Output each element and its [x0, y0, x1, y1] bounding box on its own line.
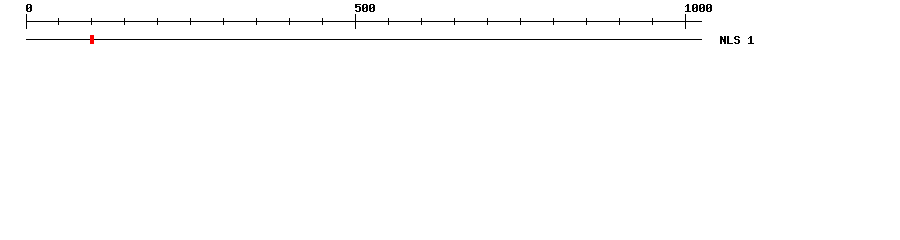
scale label "0" [26, 4, 32, 12]
minor tick 450 [322, 18, 323, 25]
minor tick 100 [91, 18, 92, 25]
minor tick 800 [553, 18, 554, 25]
major tick 500 [355, 14, 356, 29]
minor tick 850 [586, 18, 587, 25]
NLS motif marker (red) [90, 35, 94, 44]
minor tick 250 [190, 18, 191, 25]
minor tick 700 [487, 18, 488, 25]
major tick 1000 [685, 14, 686, 29]
minor tick 350 [256, 18, 257, 25]
scale label "1000" [685, 4, 712, 12]
minor tick 150 [124, 18, 125, 25]
minor tick 650 [454, 18, 455, 25]
minor tick 750 [520, 18, 521, 25]
scale label "500" [355, 4, 375, 12]
minor tick 950 [652, 18, 653, 25]
ruler axis line [26, 21, 702, 22]
minor tick 900 [619, 18, 620, 25]
minor tick 200 [157, 18, 158, 25]
minor tick 400 [289, 18, 290, 25]
minor tick 600 [421, 18, 422, 25]
major tick 0 [26, 14, 27, 29]
minor tick 550 [388, 18, 389, 25]
minor tick 50 [58, 18, 59, 25]
minor tick 300 [223, 18, 224, 25]
feature label "NLS 1" [720, 36, 754, 44]
protein sequence line [26, 39, 702, 40]
background [0, 0, 900, 58]
